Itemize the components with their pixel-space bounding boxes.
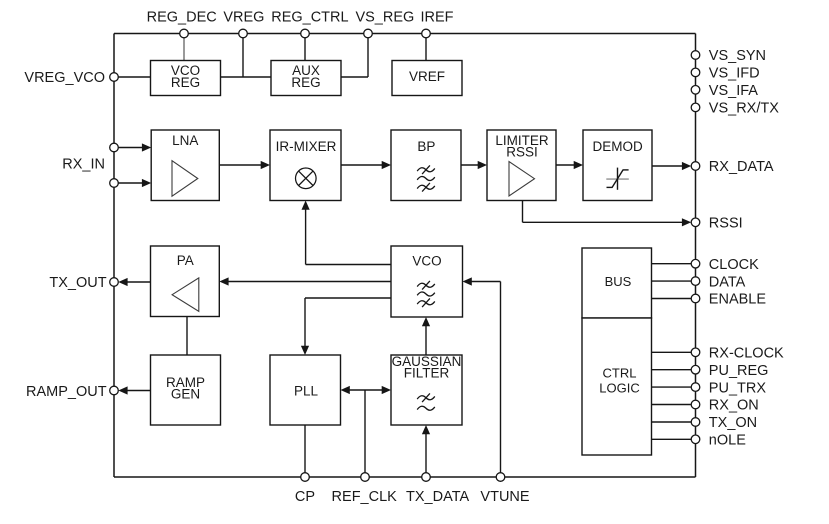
pin REF_CLK — [332, 473, 398, 505]
pin RX_IN upper — [110, 143, 119, 152]
wire BUS to CLOCK pin — [652, 263, 692, 265]
svg-text:RX_DATA: RX_DATA — [709, 159, 774, 175]
pin VREG — [223, 10, 264, 38]
svg-text:LNA: LNA — [172, 133, 198, 148]
svg-text:REG_CTRL: REG_CTRL — [271, 10, 348, 26]
svg-text:TX_ON: TX_ON — [709, 415, 757, 431]
wire outer border right — [695, 34, 697, 478]
block IR-MIXER with mixer symbol — [270, 130, 341, 201]
wire VCO to PA — [219, 277, 391, 285]
pin DATA — [691, 274, 745, 290]
wire IREF to VREF — [425, 34, 427, 61]
wire CTRL LOGIC to TX_ON pin — [652, 421, 692, 423]
svg-text:RX_ON: RX_ON — [709, 398, 759, 414]
pin VS_IFA — [691, 83, 758, 99]
pin RX_IN lower — [62, 157, 118, 188]
svg-text:PA: PA — [177, 253, 194, 268]
svg-text:VCO: VCO — [412, 254, 441, 269]
svg-text:FILTER: FILTER — [404, 366, 450, 381]
pin VS_REG — [355, 10, 414, 38]
svg-text:VTUNE: VTUNE — [480, 489, 529, 505]
pin CLOCK — [691, 257, 759, 273]
pin RSSI — [691, 216, 742, 232]
wire BP to LIMITER — [461, 161, 487, 169]
wire VREG_VCO to VCO REG — [118, 76, 150, 78]
wire GAUSSIAN FILTER to VCO — [422, 317, 430, 355]
block LIMITER RSSI with amplifier triangle — [487, 130, 556, 201]
block BUS — [582, 248, 652, 318]
svg-text:VS_RX/TX: VS_RX/TX — [709, 101, 779, 117]
wire PLL to GAUSSIAN FILTER bidirectional — [341, 386, 392, 394]
pin VREG_VCO — [24, 70, 118, 86]
wire VTUNE to VCO — [463, 277, 501, 472]
wire VCO REG to AUX REG — [221, 76, 272, 78]
wire outer border top — [114, 33, 696, 35]
svg-text:TX_OUT: TX_OUT — [49, 275, 106, 291]
pin VS_IFD — [691, 66, 759, 82]
pin VTUNE — [480, 473, 529, 505]
wire REG_DEC to VCO REG (gray) — [183, 34, 185, 61]
pin PU_REG — [691, 363, 768, 379]
pin TX_DATA — [406, 473, 469, 505]
svg-text:VREG: VREG — [223, 10, 264, 26]
svg-text:ENABLE: ENABLE — [709, 292, 767, 308]
wire CP to PLL — [304, 425, 306, 473]
pin nOLE — [691, 433, 746, 449]
block CTRL LOGIC — [582, 318, 652, 455]
block PLL — [270, 355, 341, 425]
svg-text:RX-CLOCK: RX-CLOCK — [709, 346, 784, 362]
pin RX-CLOCK — [691, 346, 784, 362]
svg-text:CLOCK: CLOCK — [709, 257, 759, 273]
pin RAMP_OUT — [26, 384, 118, 400]
wire LIMITER RSSI output to RSSI pin — [523, 201, 692, 227]
wire RX_IN upper into LNA — [118, 143, 151, 151]
block LNA with amplifier triangle — [151, 130, 219, 201]
svg-text:REG: REG — [291, 75, 320, 90]
wire PA to TX_OUT pin — [118, 278, 150, 286]
svg-text:IR-MIXER: IR-MIXER — [276, 139, 337, 154]
svg-text:VS_REG: VS_REG — [355, 10, 414, 26]
wire RX_IN lower into LNA — [118, 179, 151, 187]
wire REF_CLK to PLL-GAUSSIAN wire — [364, 390, 366, 473]
pin TX_ON — [691, 415, 757, 431]
svg-text:DEMOD: DEMOD — [592, 139, 643, 154]
pin REG_DEC — [147, 10, 217, 38]
wire BUS to DATA pin — [652, 280, 692, 282]
svg-text:VS_IFA: VS_IFA — [709, 83, 758, 99]
svg-text:VS_IFD: VS_IFD — [709, 66, 760, 82]
pin ENABLE — [691, 292, 766, 308]
svg-text:RAMP_OUT: RAMP_OUT — [26, 384, 107, 400]
block RAMP GEN — [151, 355, 221, 425]
wire CTRL LOGIC to RX_ON pin — [652, 404, 692, 406]
block VCO REG — [151, 61, 221, 96]
svg-text:LOGIC: LOGIC — [599, 380, 639, 395]
wire VREG vertical — [242, 34, 244, 78]
wire DEMOD to RX_DATA pin — [652, 162, 691, 170]
wire TX_DATA to GAUSSIAN FILTER — [422, 425, 430, 473]
svg-text:BP: BP — [417, 139, 435, 154]
svg-text:PU_REG: PU_REG — [709, 363, 769, 379]
svg-text:PLL: PLL — [294, 384, 319, 399]
pin TX_OUT — [49, 275, 118, 291]
wire VCO to IR-MIXER LO — [302, 201, 392, 265]
pin VS_SYN — [691, 48, 766, 64]
pin RX_ON — [691, 398, 759, 414]
svg-text:CTRL: CTRL — [603, 366, 637, 381]
pin REG_CTRL — [271, 10, 348, 38]
block AUX REG — [271, 61, 341, 96]
svg-text:RX_IN: RX_IN — [62, 157, 105, 173]
svg-text:REF_CLK: REF_CLK — [332, 489, 398, 505]
svg-text:REG_DEC: REG_DEC — [147, 10, 217, 26]
block PA with amplifier triangle — [151, 246, 220, 317]
wire outer border bottom — [114, 476, 696, 478]
block BP band-pass filter — [391, 130, 461, 201]
svg-text:TX_DATA: TX_DATA — [406, 489, 469, 505]
wire LNA to IR-MIXER — [219, 161, 270, 169]
wire CTRL LOGIC to PU_REG pin — [652, 369, 692, 371]
wire LIMITER to DEMOD — [556, 161, 583, 169]
pin IREF — [420, 10, 453, 38]
svg-text:IREF: IREF — [420, 10, 453, 26]
svg-text:CP: CP — [295, 489, 315, 505]
wire BUS to ENABLE pin — [652, 298, 692, 300]
svg-text:PU_TRX: PU_TRX — [709, 380, 767, 396]
pin PU_TRX — [691, 380, 766, 396]
svg-text:nOLE: nOLE — [709, 433, 746, 449]
wire RAMP GEN to RAMP_OUT pin — [118, 386, 150, 394]
wire outer border left — [113, 34, 115, 478]
svg-text:REG: REG — [171, 75, 200, 90]
wire CTRL LOGIC to RX-CLOCK pin — [652, 351, 692, 353]
pin RX_DATA — [691, 159, 774, 175]
wire CTRL LOGIC to PU_TRX pin — [652, 386, 692, 388]
svg-text:VREF: VREF — [409, 69, 445, 84]
pin CP — [295, 473, 315, 505]
block GAUSSIAN FILTER — [391, 354, 462, 425]
svg-text:RSSI: RSSI — [506, 144, 538, 159]
wire CTRL LOGIC to nOLE pin — [652, 438, 692, 440]
pin VS_RX/TX — [691, 101, 779, 117]
wire REG_CTRL to AUX REG — [304, 34, 306, 61]
svg-text:VREG_VCO: VREG_VCO — [24, 70, 105, 86]
wire PA to RAMP GEN — [186, 317, 188, 356]
block DEMOD with limiter curve symbol — [583, 130, 652, 201]
svg-text:RSSI: RSSI — [709, 216, 743, 232]
wire VS_REG vertical — [341, 34, 368, 78]
wire VCO to PLL — [301, 298, 391, 355]
svg-text:DATA: DATA — [709, 274, 746, 290]
svg-text:VS_SYN: VS_SYN — [709, 48, 766, 64]
wire IR-MIXER to BP — [341, 161, 391, 169]
svg-text:BUS: BUS — [605, 274, 632, 289]
block VCO oscillator — [391, 246, 463, 317]
svg-text:GEN: GEN — [171, 387, 200, 402]
block VREF U-VREF — [392, 61, 462, 96]
